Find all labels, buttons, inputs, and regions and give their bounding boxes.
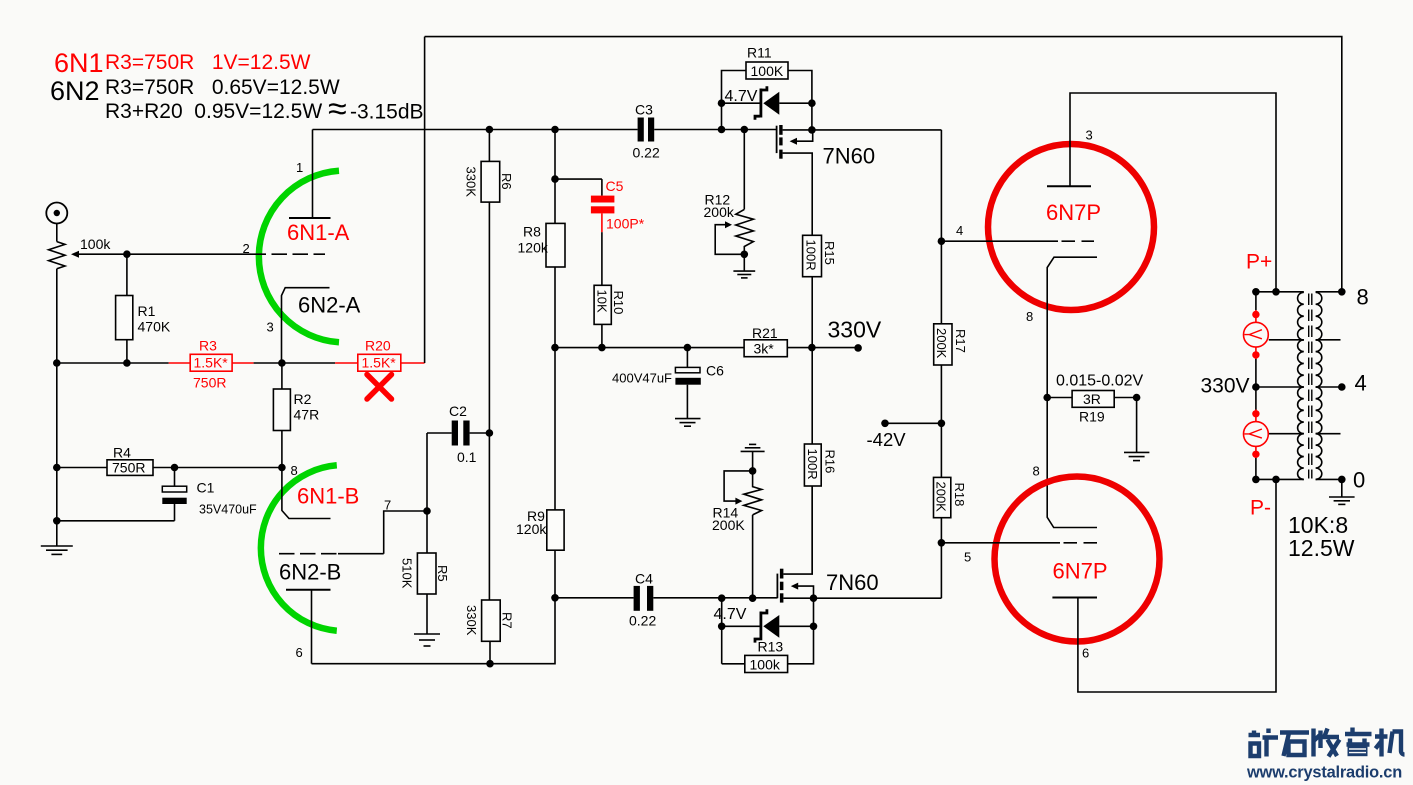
svg-text:R2: R2 [294,391,312,407]
resistor R5 510K [400,511,451,634]
resistor R7 330K [464,433,514,664]
node terminal 8 dot [1338,288,1346,296]
svg-text:6N1-A: 6N1-A [287,220,350,245]
resistor R20 1.5K* red [335,338,425,372]
ground symbol R19 [1124,398,1149,461]
svg-text:R21: R21 [752,325,778,341]
svg-text:330K: 330K [464,605,479,636]
svg-text:120k: 120k [518,240,549,256]
svg-text:2: 2 [243,241,250,256]
resistor R19 3R [1047,373,1143,425]
node C5 branch dot [551,175,559,183]
svg-text:750R: 750R [112,460,145,476]
wire vertical x425 R20 to top rail [424,37,426,363]
svg-text:R3: R3 [199,338,217,354]
svg-text:7N60: 7N60 [826,570,879,595]
triode plate 6N2-B pin 6 [286,590,331,664]
svg-text:200K: 200K [934,482,949,513]
svg-text:8: 8 [291,463,298,478]
wire main top row y129 [313,129,777,131]
svg-text:0.22: 0.22 [633,145,660,161]
node R6 top dot [486,126,494,134]
wire secondary tap upper stub [1316,339,1341,341]
tube 6N7P upper grid dashed pin 4 [941,240,1094,242]
node zener2 anode dot [810,623,818,631]
ground symbol R12 [733,254,755,278]
ground symbol terminal 0 [1329,479,1355,504]
svg-text:R10: R10 [611,291,626,315]
node R7 bottom dot [486,660,494,668]
wire right column vertical [814,130,942,598]
tube envelope 6N1-A/6N2-A green arc [259,171,339,343]
svg-text:6N2-A: 6N2-A [298,293,361,318]
svg-text:R6: R6 [499,173,514,190]
node R14 bottom dot [749,594,757,602]
svg-text:R8: R8 [523,224,541,240]
wire pin 7 [384,511,427,554]
node -42V junction dot [938,420,946,428]
wire R3 row black left [57,362,169,364]
wire C4 row [555,597,777,599]
svg-text:3R: 3R [1083,391,1101,407]
node R14 top dot [749,467,757,475]
svg-text:100R: 100R [805,449,820,480]
svg-text:-42V: -42V [867,429,907,450]
svg-text:6N2-B: 6N2-B [279,560,341,585]
svg-text:R11: R11 [747,45,772,61]
svg-text:0: 0 [1353,468,1365,493]
wire primary tap upper to meter [1269,339,1304,341]
svg-text:330K: 330K [464,167,479,198]
wire -42V [885,422,941,424]
wire pin 8 lower tube [1047,398,1097,528]
svg-text:P+: P+ [1246,251,1272,274]
tube 6N7P upper envelope red circle [988,144,1154,310]
svg-text:12.5W: 12.5W [1288,535,1355,561]
resistor R3 1.5K* 750R red [169,338,254,391]
wire primary tap lower to meter [1269,433,1304,435]
wire lower left rail [721,598,723,664]
node 330V row C6 dot [684,344,692,352]
svg-text:7: 7 [384,498,391,513]
triode 6N1-B cathode pin 8 [282,468,331,519]
svg-text:P-: P- [1250,497,1271,520]
node R12 bottom dot [741,251,749,259]
node 3 junction dot [278,359,286,367]
terminal 330V dot [854,344,862,352]
svg-text:R15: R15 [822,241,837,265]
node wiper junction dot [123,250,131,258]
zener diode D1 4.7V [722,86,812,120]
svg-text:8: 8 [1357,285,1369,310]
svg-text:4: 4 [956,223,963,238]
capacitor C4 0.22 [629,571,656,629]
node terminal 0 dot [1338,476,1346,484]
svg-text:R20: R20 [365,338,391,354]
svg-text:4.7V: 4.7V [725,88,758,105]
svg-text:0.1: 0.1 [457,449,477,465]
svg-text:47R: 47R [294,407,320,423]
resistor R2 47R [273,363,319,468]
tube envelope 6N1-B/6N2-B green arc [261,465,337,630]
node drain dot upper [808,126,816,134]
triode grid dashed 6N1-B [279,553,384,555]
transformer core dashed lines [1309,294,1312,479]
resistor R10 10K [594,232,626,347]
svg-text:6N2: 6N2 [50,76,100,106]
ground input chain vertical wire [56,269,58,546]
capacitor C6 400V47uF electrolytic [612,348,724,419]
node zener1 cathode dot [718,99,726,107]
red X delete mark [367,375,392,400]
svg-text:3: 3 [1086,128,1093,143]
svg-text:C5: C5 [606,178,624,194]
triode grid dashed 6N1-A [251,253,326,255]
node R19 left dot [1043,394,1051,402]
svg-text:100k: 100k [80,236,111,252]
node ground rail dot R3 row [53,359,61,367]
svg-text:8: 8 [1026,309,1033,324]
resistor R1 470K [116,254,171,363]
svg-text:R7: R7 [499,612,514,629]
wire 330V row [555,347,858,349]
svg-text:8: 8 [1033,464,1040,479]
potentiometer wiper arrow [71,251,251,258]
svg-text:100k: 100k [750,656,781,672]
wire secondary tap lower stub [1316,433,1341,435]
terminal -42V dot [881,420,889,428]
node zener2 cathode dot [718,623,726,631]
potentiometer R12 200k [704,130,754,255]
transistor Q1 7N60 mosfet [777,125,813,235]
svg-text:6: 6 [296,645,303,660]
node top rail left dot [1252,288,1260,296]
resistor R15 100R [803,235,837,347]
ground symbol C6 [675,419,701,427]
svg-text:C4: C4 [635,571,653,587]
resistor R6 330K [464,130,514,434]
node terminal 4 dot [1338,383,1346,391]
svg-text:R19: R19 [1079,409,1105,425]
svg-text:200K: 200K [712,517,745,533]
svg-text:3: 3 [267,320,274,335]
svg-text:100R: 100R [804,240,819,271]
tube 6N7P lower plate pin 6 [1052,479,1276,692]
svg-text:1: 1 [296,160,303,175]
transformer T1 secondary winding right [1316,292,1322,479]
svg-text:5: 5 [964,550,971,565]
meter M2 red [1244,410,1269,459]
svg-text:R13: R13 [758,639,784,655]
node R8 column top dot [551,126,559,134]
node R12 top dot [741,126,749,134]
watermark logo Chinese characters [1249,728,1405,757]
svg-text:6N7P: 6N7P [1053,559,1108,584]
svg-text:R1: R1 [138,303,156,319]
svg-text:R3+R20 0.95V=12.5W: R3+R20 0.95V=12.5W [105,100,322,123]
node gate wire dot [718,126,726,134]
zener diode D2 4.7V [714,606,814,643]
transformer T1 primary winding left [1298,292,1304,479]
node gate wire dot lower left [718,594,726,602]
node 330V rail dot [1252,383,1260,391]
wire 330V centre tap [1256,386,1304,388]
svg-text:www.crystalradio.cn: www.crystalradio.cn [1246,764,1402,782]
svg-text:C1: C1 [197,480,215,496]
node C2 R6 R7 dot [486,429,494,437]
svg-text:R17: R17 [953,329,968,353]
svg-text:120k: 120k [516,521,547,537]
capacitor C3 0.22 [633,102,660,161]
potentiometer R14 200K [712,471,762,598]
node drain dot lower [810,594,818,602]
svg-text:7N60: 7N60 [823,144,876,169]
svg-text:6N7P: 6N7P [1046,200,1101,225]
node pin 4 dot [938,237,946,245]
tube 6N7P upper plate pin 3 [1047,93,1276,292]
svg-text:C3: C3 [635,102,653,118]
resistor R13 100k [722,598,814,672]
tube 6N7P upper cathode pin 8 [1047,257,1097,397]
svg-text:C6: C6 [706,363,724,379]
svg-text:1.5K*: 1.5K* [194,355,229,371]
potentiometer 100k [49,236,112,269]
capacitor C1 35V470uF electrolytic [57,468,257,521]
tube 6N7P lower envelope red circle [995,477,1160,642]
svg-text:3k*: 3k* [754,341,775,357]
node 330V row R10 dot [598,344,606,352]
svg-text:6N1: 6N1 [54,48,104,78]
node C1 ground rail dot [53,517,61,525]
resistor R17 200K [934,324,968,365]
wire meter rail black segments [1255,292,1257,480]
triode 6N1-A plate pin 1 lead [289,130,331,219]
resistor R11 100K [722,45,812,130]
meter M1 red [1244,310,1269,359]
svg-text:R16: R16 [823,450,838,474]
node R1 bottom dot [123,359,131,367]
svg-text:100K: 100K [751,63,784,79]
ground symbol inverted R14 [741,444,765,471]
node 330V row R8 dot [551,344,559,352]
capacitor C2 0.1 [427,403,489,511]
svg-text:≈: ≈ [328,90,347,128]
svg-text:750R: 750R [193,375,226,391]
node zener1 anode dot [808,99,816,107]
svg-text:4.7V: 4.7V [714,606,747,623]
resistor R8 120k [518,130,566,348]
svg-text:510K: 510K [400,558,415,589]
node top rail pin3 dot [1272,288,1280,296]
svg-text:-3.15dB: -3.15dB [350,101,424,124]
node 8 junction dot [278,464,286,472]
svg-text:0.015-0.02V: 0.015-0.02V [1056,373,1144,390]
triode cathode 6N2-A [282,288,330,363]
svg-text:R5: R5 [435,565,450,582]
wire node3 to R20 [282,362,335,364]
svg-text:330V: 330V [1201,375,1250,398]
svg-text:100P*: 100P* [606,216,645,232]
node 330V R15 R16 dot [808,344,816,352]
svg-text:200k: 200k [704,204,735,220]
svg-text:35V470uF: 35V470uF [199,503,257,517]
svg-text:R3=750R 0.65V=12.5W: R3=750R 0.65V=12.5W [105,76,340,99]
svg-text:400V47uF: 400V47uF [612,371,672,386]
capacitor C5 100P* red [555,178,645,232]
node C1 top dot [171,464,179,472]
svg-text:R3=750R 1V=12.5W: R3=750R 1V=12.5W [105,51,311,74]
svg-text:10K: 10K [594,290,609,313]
svg-text:6N1-B: 6N1-B [297,484,359,509]
wire node3 to R3 [254,362,282,364]
resistor R4 750R [57,445,282,476]
wire bottom row pin6 [312,598,556,664]
resistor R18 200K [934,477,968,517]
svg-text:200K: 200K [934,328,949,359]
svg-text:C2: C2 [449,403,467,419]
node C4 R9 dot [551,594,559,602]
node pin7 C2 R5 dot [423,507,431,515]
svg-text:R18: R18 [952,483,967,507]
node pin 5 dot [938,539,946,547]
wire secondary tap 4 [1316,386,1342,388]
svg-text:R4: R4 [113,445,131,461]
resistor R21 3k* [744,325,787,357]
ground symbol left [41,546,73,554]
resistor R16 100R [804,348,837,574]
wire transformer top rail [1256,291,1342,293]
svg-text:470K: 470K [138,319,171,335]
wire transformer bottom rail [1256,478,1342,480]
node ground rail dot R4 row [53,464,61,472]
svg-text:4: 4 [1355,371,1367,396]
svg-text:6: 6 [1082,646,1089,661]
ground symbol R5 [414,634,440,646]
tube 6N7P lower grid dashed pin 5 [941,542,1097,544]
transistor Q2 7N60 mosfet lower [777,486,813,603]
wire top rail [425,37,1342,292]
resistor R9 120k [516,348,564,598]
svg-text:1.5K*: 1.5K* [362,355,397,371]
node bottom rail pin6 dot [1272,476,1280,484]
node bottom rail left dot [1252,476,1260,484]
node R19 right dot [1133,394,1141,402]
svg-text:330V: 330V [828,317,882,343]
svg-text:0.22: 0.22 [629,613,656,629]
input jack J1 [46,203,67,242]
wire drain to right column upper [812,129,942,131]
